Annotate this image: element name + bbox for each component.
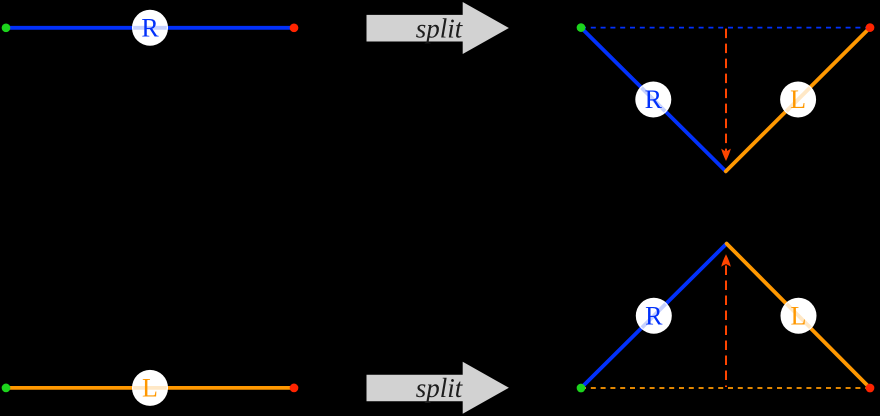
- svg-text:split: split: [416, 13, 464, 43]
- svg-text:R: R: [645, 85, 663, 114]
- svg-text:L: L: [790, 85, 806, 114]
- svg-text:R: R: [645, 302, 663, 331]
- svg-text:R: R: [141, 14, 159, 43]
- svg-text:L: L: [142, 374, 158, 403]
- svg-text:L: L: [791, 302, 807, 331]
- svg-text:split: split: [416, 373, 464, 403]
